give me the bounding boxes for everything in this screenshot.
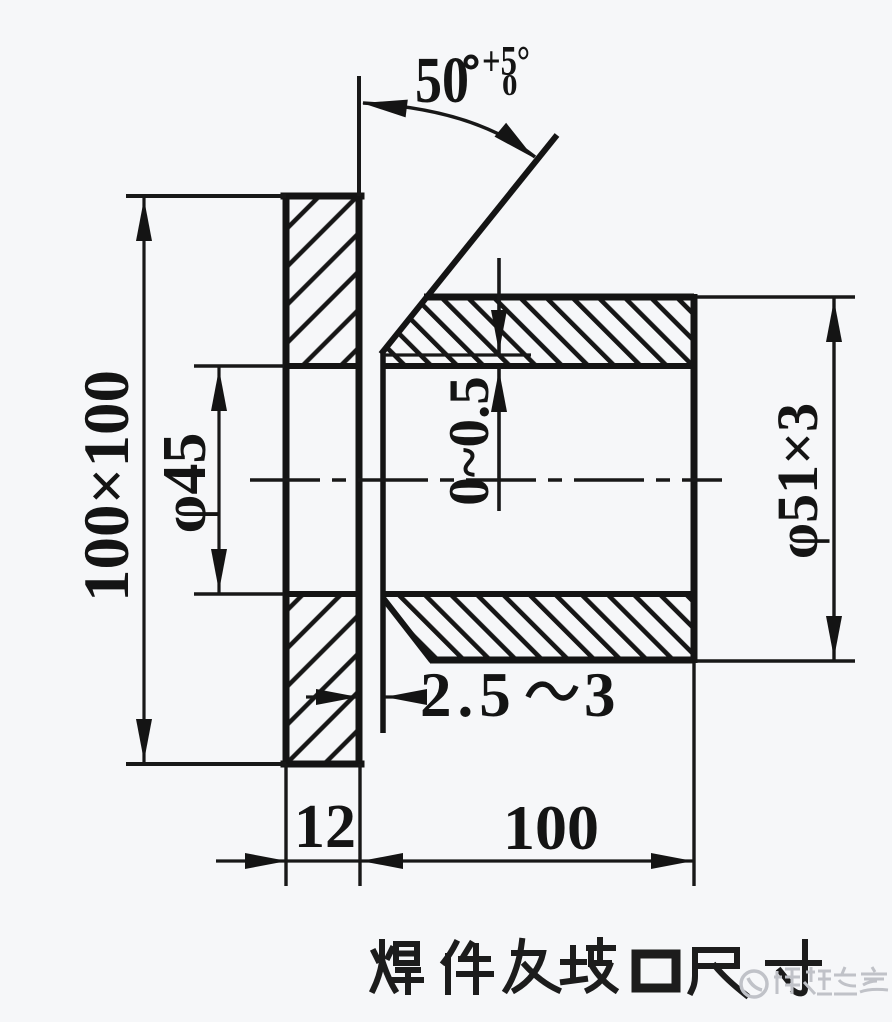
- pipe outer top line: [424, 294, 694, 301]
- svg-text:12: 12: [294, 793, 356, 861]
- bottom right extension line: [692, 663, 695, 886]
- caption character cun (inch): [768, 942, 819, 993]
- watermark char 1: [774, 969, 800, 994]
- 2.5~3 dimension line left segment: [306, 695, 358, 698]
- caption character kou (mouth): [636, 954, 676, 988]
- svg-text:3: 3: [584, 660, 616, 730]
- 100x100 bottom extension line: [126, 762, 286, 766]
- watermark logo circle: [741, 971, 767, 997]
- plate lower hatched section: [288, 596, 357, 762]
- bevel slant edge extended: [381, 135, 557, 354]
- 12 dim left arrowhead: [245, 853, 287, 869]
- svg-text:100: 100: [503, 792, 599, 863]
- 0~0.5 upper arrowhead: [491, 310, 507, 352]
- 2.5~3 left arrowhead: [316, 689, 358, 705]
- svg-text:0~0.5: 0~0.5: [438, 376, 501, 505]
- svg-text:φ45: φ45: [151, 433, 219, 534]
- phi51x3 bottom extension line: [697, 659, 855, 662]
- watermark char 3: [834, 967, 857, 994]
- 100x100 dimension line: [142, 196, 145, 764]
- angle extension line vertical: [357, 76, 361, 196]
- pipe upper wall hatched section: [382, 297, 694, 366]
- svg-text:50: 50: [415, 44, 469, 117]
- phi45 top extension line: [194, 364, 284, 367]
- svg-text:0: 0: [502, 67, 518, 102]
- caption character han (weld): [373, 942, 421, 992]
- 2.5~3 dimension line right segment: [385, 695, 426, 698]
- plate hole upper edge: [284, 363, 359, 369]
- svg-text:φ51×3: φ51×3: [765, 403, 830, 559]
- pipe outer bottom line: [430, 657, 694, 664]
- plate hole lower edge: [284, 591, 359, 597]
- 0~0.5 dimension line lower: [497, 366, 501, 511]
- angle dimension arc: [363, 103, 535, 157]
- bottom wall bevel edge: [383, 598, 432, 661]
- angle arc right arrowhead: [495, 123, 535, 158]
- pipe right end line: [691, 294, 698, 663]
- caption character chi (rule): [691, 950, 746, 995]
- degree circle of 50: [466, 57, 477, 68]
- 100x100 top extension line: [126, 194, 286, 198]
- 2.5~3 right arrowhead: [385, 689, 427, 705]
- watermark char 2: [804, 967, 832, 994]
- caption character jian (piece): [444, 943, 491, 992]
- watermark char 4: [860, 967, 888, 992]
- phi45 bottom extension line: [194, 592, 284, 595]
- 0~0.5 lower arrowhead: [491, 370, 507, 412]
- bottom left extension line: [284, 764, 287, 886]
- 0~0.5 dimension line upper: [497, 258, 501, 355]
- pipe inner top line: [382, 363, 694, 369]
- pipe lower wall hatched section: [383, 594, 694, 660]
- phi51x3 top extension line: [697, 295, 855, 298]
- pipe end edge / gap extension line: [380, 353, 386, 733]
- caption character ji (and): [506, 941, 558, 990]
- angle arc left arrowhead: [362, 100, 408, 118]
- bottom dimension line: [216, 859, 694, 862]
- phi51x3 bottom arrowhead: [826, 616, 842, 658]
- svg-text:2.5: 2.5: [420, 660, 517, 730]
- pipe inner bottom line: [383, 591, 694, 597]
- plate upper hatched section: [288, 198, 357, 364]
- 0~0.5 horizontal extension line: [383, 353, 531, 356]
- 100 dim left arrowhead: [361, 853, 403, 869]
- phi45 dimension line: [217, 366, 220, 594]
- 100 dim right arrowhead: [651, 853, 693, 869]
- phi51x3 top arrowhead: [826, 300, 842, 342]
- caption character po (groove): [563, 940, 615, 990]
- phi45 top arrowhead: [211, 369, 227, 411]
- phi45 bottom arrowhead: [211, 549, 227, 591]
- svg-text:100×100: 100×100: [71, 370, 143, 602]
- 100x100 bottom arrowhead: [136, 719, 152, 761]
- plate outline: [284, 196, 361, 764]
- tilde of 2.5~3: [528, 684, 576, 698]
- bottom middle extension line: [358, 764, 361, 886]
- 100x100 top arrowhead: [136, 199, 152, 241]
- phi51x3 dimension line: [832, 297, 835, 661]
- centerline: [250, 478, 722, 481]
